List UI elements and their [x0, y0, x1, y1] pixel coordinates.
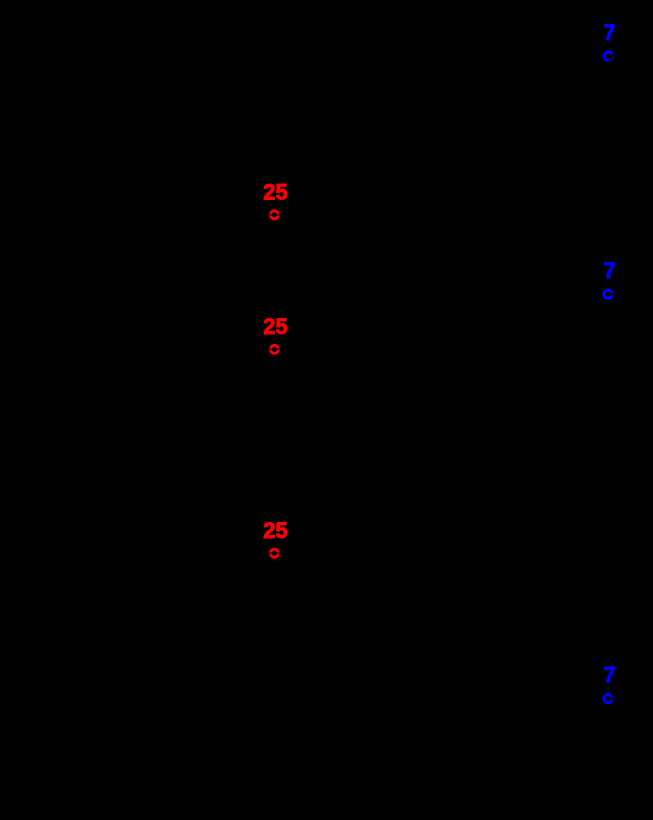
node 7 label (pin 2) — [604, 258, 616, 283]
svg-text:7: 7 — [604, 258, 616, 283]
svg-text:7: 7 — [604, 663, 616, 688]
wire crossing node 7 marker (pin 1) — [609, 49, 617, 63]
capacitor C1 — [420, 335, 430, 363]
node 25 label (pin 1) — [263, 179, 287, 204]
wire net 7 vertical rail — [607, 56, 609, 294]
resistor R1 — [360, 207, 450, 223]
wire crossing node 7 marker (pin 3) — [611, 698, 618, 700]
wire net 25 vertical rail — [274, 215, 276, 349]
wire net 7 lower segment — [607, 294, 609, 699]
op-amp U1 — [340, 520, 410, 590]
wire from C1 to node 7 — [430, 348, 608, 350]
wire from node 25 to C1 — [275, 348, 421, 350]
transistor Q1 — [452, 642, 488, 678]
svg-text:25: 25 — [263, 179, 287, 204]
ground 2 — [595, 699, 621, 752]
wire crossing node 7 marker (pin 2) — [611, 293, 618, 295]
ground — [262, 553, 287, 602]
svg-text:25: 25 — [263, 314, 287, 339]
wire from node 25 to U1 inverting input — [275, 537, 341, 539]
wire from node 25 to R1 — [275, 214, 361, 216]
node 7 label (pin 1) — [604, 20, 616, 45]
node 7 label (pin 3) — [604, 663, 616, 688]
wire crossing node 25 marker (pin 3) — [266, 552, 283, 554]
wire crossing node 25 marker (pin 2) — [266, 348, 283, 350]
node 7 marker circle (pin 3) — [604, 695, 612, 703]
node 25 label (pin 3) — [263, 518, 287, 543]
wire from U1 output to node 7 — [410, 554, 608, 556]
node 25 label (pin 2) — [263, 314, 287, 339]
svg-text:25: 25 — [263, 518, 287, 543]
node 25 marker circle (pin 1) — [271, 211, 279, 219]
wire from R1 to node 7 — [450, 214, 608, 216]
node 25 marker circle (pin 2) — [271, 345, 279, 353]
wire net 25 lower segment — [274, 349, 276, 553]
node 7 marker circle (pin 1) — [604, 52, 612, 60]
node 25 marker circle (pin 3) — [271, 549, 279, 557]
node 7 marker circle (pin 2) — [604, 290, 612, 298]
wire crossing node 25 marker (pin 1) — [266, 214, 283, 216]
svg-text:7: 7 — [604, 20, 616, 45]
